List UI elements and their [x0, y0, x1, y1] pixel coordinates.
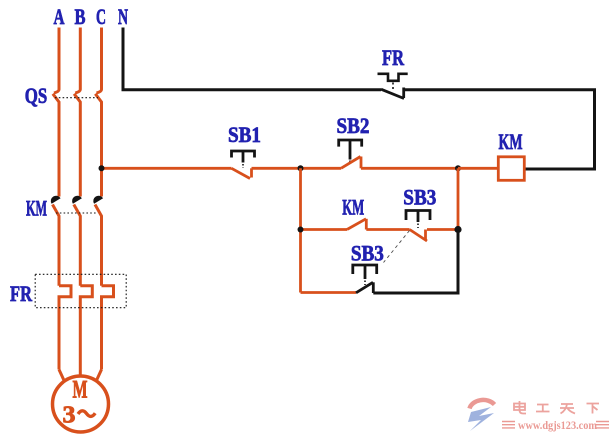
wire row3 right black: [373, 230, 458, 294]
KM linkage dotted line: [56, 212, 97, 214]
thermal relay FR heater B: [80, 286, 92, 370]
motor lead C: [96, 370, 102, 382]
switch QS pole B blade: [74, 94, 80, 197]
node tap on phase C: [99, 165, 105, 171]
watermark logo: [468, 400, 495, 431]
wire phase C top: [97, 28, 102, 94]
svg-text:A: A: [54, 4, 65, 29]
FR contact moving blade: [381, 89, 404, 98]
motor lead B: [79, 370, 82, 378]
svg-text:C: C: [96, 4, 106, 29]
button SB2 actuator: [339, 140, 362, 147]
svg-text:SB1: SB1: [228, 122, 261, 147]
svg-text:SB2: SB2: [337, 113, 370, 138]
svg-text:KM: KM: [342, 195, 364, 220]
wire FR to KM coil (right loop): [404, 90, 595, 169]
contactor KM main contact A: [51, 196, 61, 204]
SB3 mechanical linkage dashed: [384, 231, 410, 263]
node junction row2 right: [454, 226, 461, 233]
button SB1 contact blade: [232, 168, 251, 178]
svg-text:www.dgjs123.com: www.dgjs123.com: [518, 420, 597, 432]
wire branch vertical right (orange): [457, 168, 460, 229]
svg-text:FR: FR: [10, 281, 33, 306]
FR contact link dots: [392, 83, 394, 90]
coil KM: [498, 157, 524, 181]
wire neutral N: [123, 28, 381, 90]
wire row3 left: [301, 291, 357, 294]
FR dotted enclosure: [35, 274, 126, 307]
wire control row1 left: [102, 167, 232, 170]
svg-text:SB3: SB3: [403, 185, 436, 210]
svg-text:3: 3: [63, 403, 76, 429]
node junction row2 left: [298, 227, 304, 233]
svg-text:B: B: [75, 4, 86, 29]
contact KM aux blade: [347, 219, 366, 230]
button SB1 fixed tick: [250, 168, 253, 177]
contactor KM main contact B: [72, 196, 82, 204]
svg-text:SB3: SB3: [351, 241, 384, 266]
switch QS pole C blade: [95, 94, 101, 197]
wire row2 left: [301, 228, 348, 231]
switch QS pole A blade: [53, 94, 59, 197]
watermark text dian gong tian xia: [514, 401, 599, 414]
wire node to coil: [458, 167, 498, 170]
button SB1 actuator: [232, 151, 255, 158]
svg-text:KM: KM: [26, 196, 47, 221]
motor lead A: [59, 370, 65, 382]
svg-text:QS: QS: [25, 83, 48, 108]
svg-text:M: M: [73, 377, 88, 404]
button SB3no actuator: [353, 265, 377, 274]
svg-text:N: N: [118, 4, 128, 29]
watermark url: [502, 420, 609, 432]
contactor KM main contact C: [93, 196, 103, 204]
FR contact fixed tick: [402, 88, 405, 99]
button SB3nc fixed tick: [424, 230, 427, 241]
svg-text:KM: KM: [499, 129, 523, 154]
node junction row1 right: [455, 165, 461, 171]
QS linkage dotted line: [55, 97, 98, 99]
motor M circle: [53, 376, 109, 432]
button SB3no fixed tick: [372, 282, 375, 293]
svg-text:FR: FR: [382, 45, 405, 70]
button SB3nc actuator: [406, 211, 430, 221]
button SB2 fixed tick: [360, 157, 363, 169]
wire phase B top: [75, 28, 80, 94]
wire phase A top: [54, 28, 59, 94]
button SB3nc contact blade: [410, 230, 427, 242]
wire SB2 to node: [361, 167, 458, 170]
thermal relay FR heater A: [59, 286, 71, 370]
thermal contact FR element bar: [378, 74, 408, 81]
motor tilde: [78, 411, 95, 417]
wire SB1 to node: [252, 167, 342, 170]
wire KM aux to SB3: [366, 228, 409, 231]
wire branch vertical left: [299, 168, 302, 292]
node junction row1 left: [298, 165, 304, 171]
button SB2 contact blade: [341, 157, 361, 169]
button SB3no contact blade: [356, 282, 373, 293]
wire SB3nc to node: [427, 228, 458, 231]
thermal relay FR heater C: [102, 286, 114, 370]
contact KM aux fixed tick: [365, 219, 368, 230]
